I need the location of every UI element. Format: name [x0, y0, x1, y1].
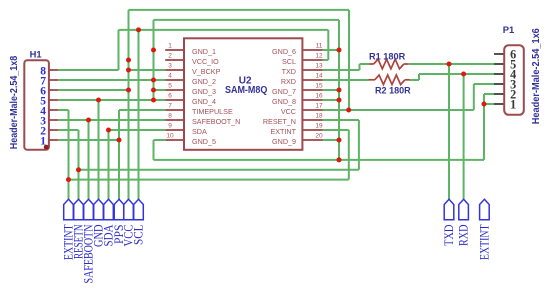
svg-text:18: 18	[315, 113, 323, 120]
svg-text:SDA: SDA	[192, 127, 207, 136]
svg-text:GND_2: GND_2	[192, 77, 216, 86]
svg-text:GND_5: GND_5	[192, 137, 216, 146]
svg-text:VCC_IO: VCC_IO	[192, 57, 219, 66]
svg-text:TXD: TXD	[442, 224, 456, 246]
svg-text:GND_3: GND_3	[192, 87, 216, 96]
svg-text:RXD: RXD	[281, 77, 296, 86]
svg-text:TIMEPULSE: TIMEPULSE	[192, 107, 233, 116]
svg-text:17: 17	[315, 103, 323, 110]
svg-text:GND_4: GND_4	[192, 97, 216, 106]
svg-text:3: 3	[168, 63, 172, 70]
svg-text:14: 14	[315, 73, 323, 80]
svg-text:SAM-M8Q: SAM-M8Q	[225, 85, 268, 96]
svg-text:10: 10	[166, 133, 174, 140]
svg-text:GND_6: GND_6	[272, 47, 296, 56]
svg-text:16: 16	[315, 93, 323, 100]
svg-text:1: 1	[168, 43, 172, 50]
svg-text:R2 180R: R2 180R	[375, 86, 411, 96]
svg-text:8: 8	[168, 113, 172, 120]
svg-text:SCL: SCL	[282, 57, 296, 66]
svg-text:1: 1	[40, 136, 46, 148]
svg-text:V_BCKP: V_BCKP	[192, 67, 221, 76]
svg-text:SCL: SCL	[132, 225, 146, 246]
svg-text:13: 13	[315, 63, 323, 70]
svg-text:SAFEBOOT_N: SAFEBOOT_N	[192, 117, 240, 126]
svg-text:6: 6	[168, 93, 172, 100]
svg-text:Header-Male-2.54_1x6: Header-Male-2.54_1x6	[531, 28, 542, 124]
svg-text:RESET_N: RESET_N	[263, 117, 296, 126]
svg-text:GND_1: GND_1	[192, 47, 216, 56]
svg-text:TXD: TXD	[282, 67, 296, 76]
svg-text:P1: P1	[503, 24, 514, 35]
svg-text:GND_8: GND_8	[272, 97, 296, 106]
svg-text:11: 11	[316, 43, 323, 50]
svg-text:Header-Male-2.54_1x8: Header-Male-2.54_1x8	[9, 56, 20, 150]
svg-text:EXTINT: EXTINT	[270, 127, 296, 136]
svg-text:R1 180R: R1 180R	[369, 52, 406, 62]
svg-text:VCC: VCC	[281, 107, 296, 116]
svg-text:GND_7: GND_7	[272, 87, 296, 96]
svg-text:9: 9	[168, 123, 172, 130]
svg-text:5: 5	[168, 83, 172, 90]
svg-text:7: 7	[168, 103, 172, 110]
svg-text:19: 19	[315, 123, 323, 130]
svg-text:4: 4	[168, 73, 172, 80]
svg-text:EXTINT: EXTINT	[478, 224, 492, 260]
svg-text:20: 20	[315, 133, 323, 140]
svg-text:GND_9: GND_9	[272, 137, 296, 146]
svg-text:12: 12	[315, 53, 323, 60]
svg-text:15: 15	[315, 83, 323, 90]
svg-text:H1: H1	[30, 49, 42, 60]
svg-text:RXD: RXD	[457, 224, 471, 246]
svg-text:1: 1	[510, 98, 516, 112]
svg-text:2: 2	[168, 53, 172, 60]
